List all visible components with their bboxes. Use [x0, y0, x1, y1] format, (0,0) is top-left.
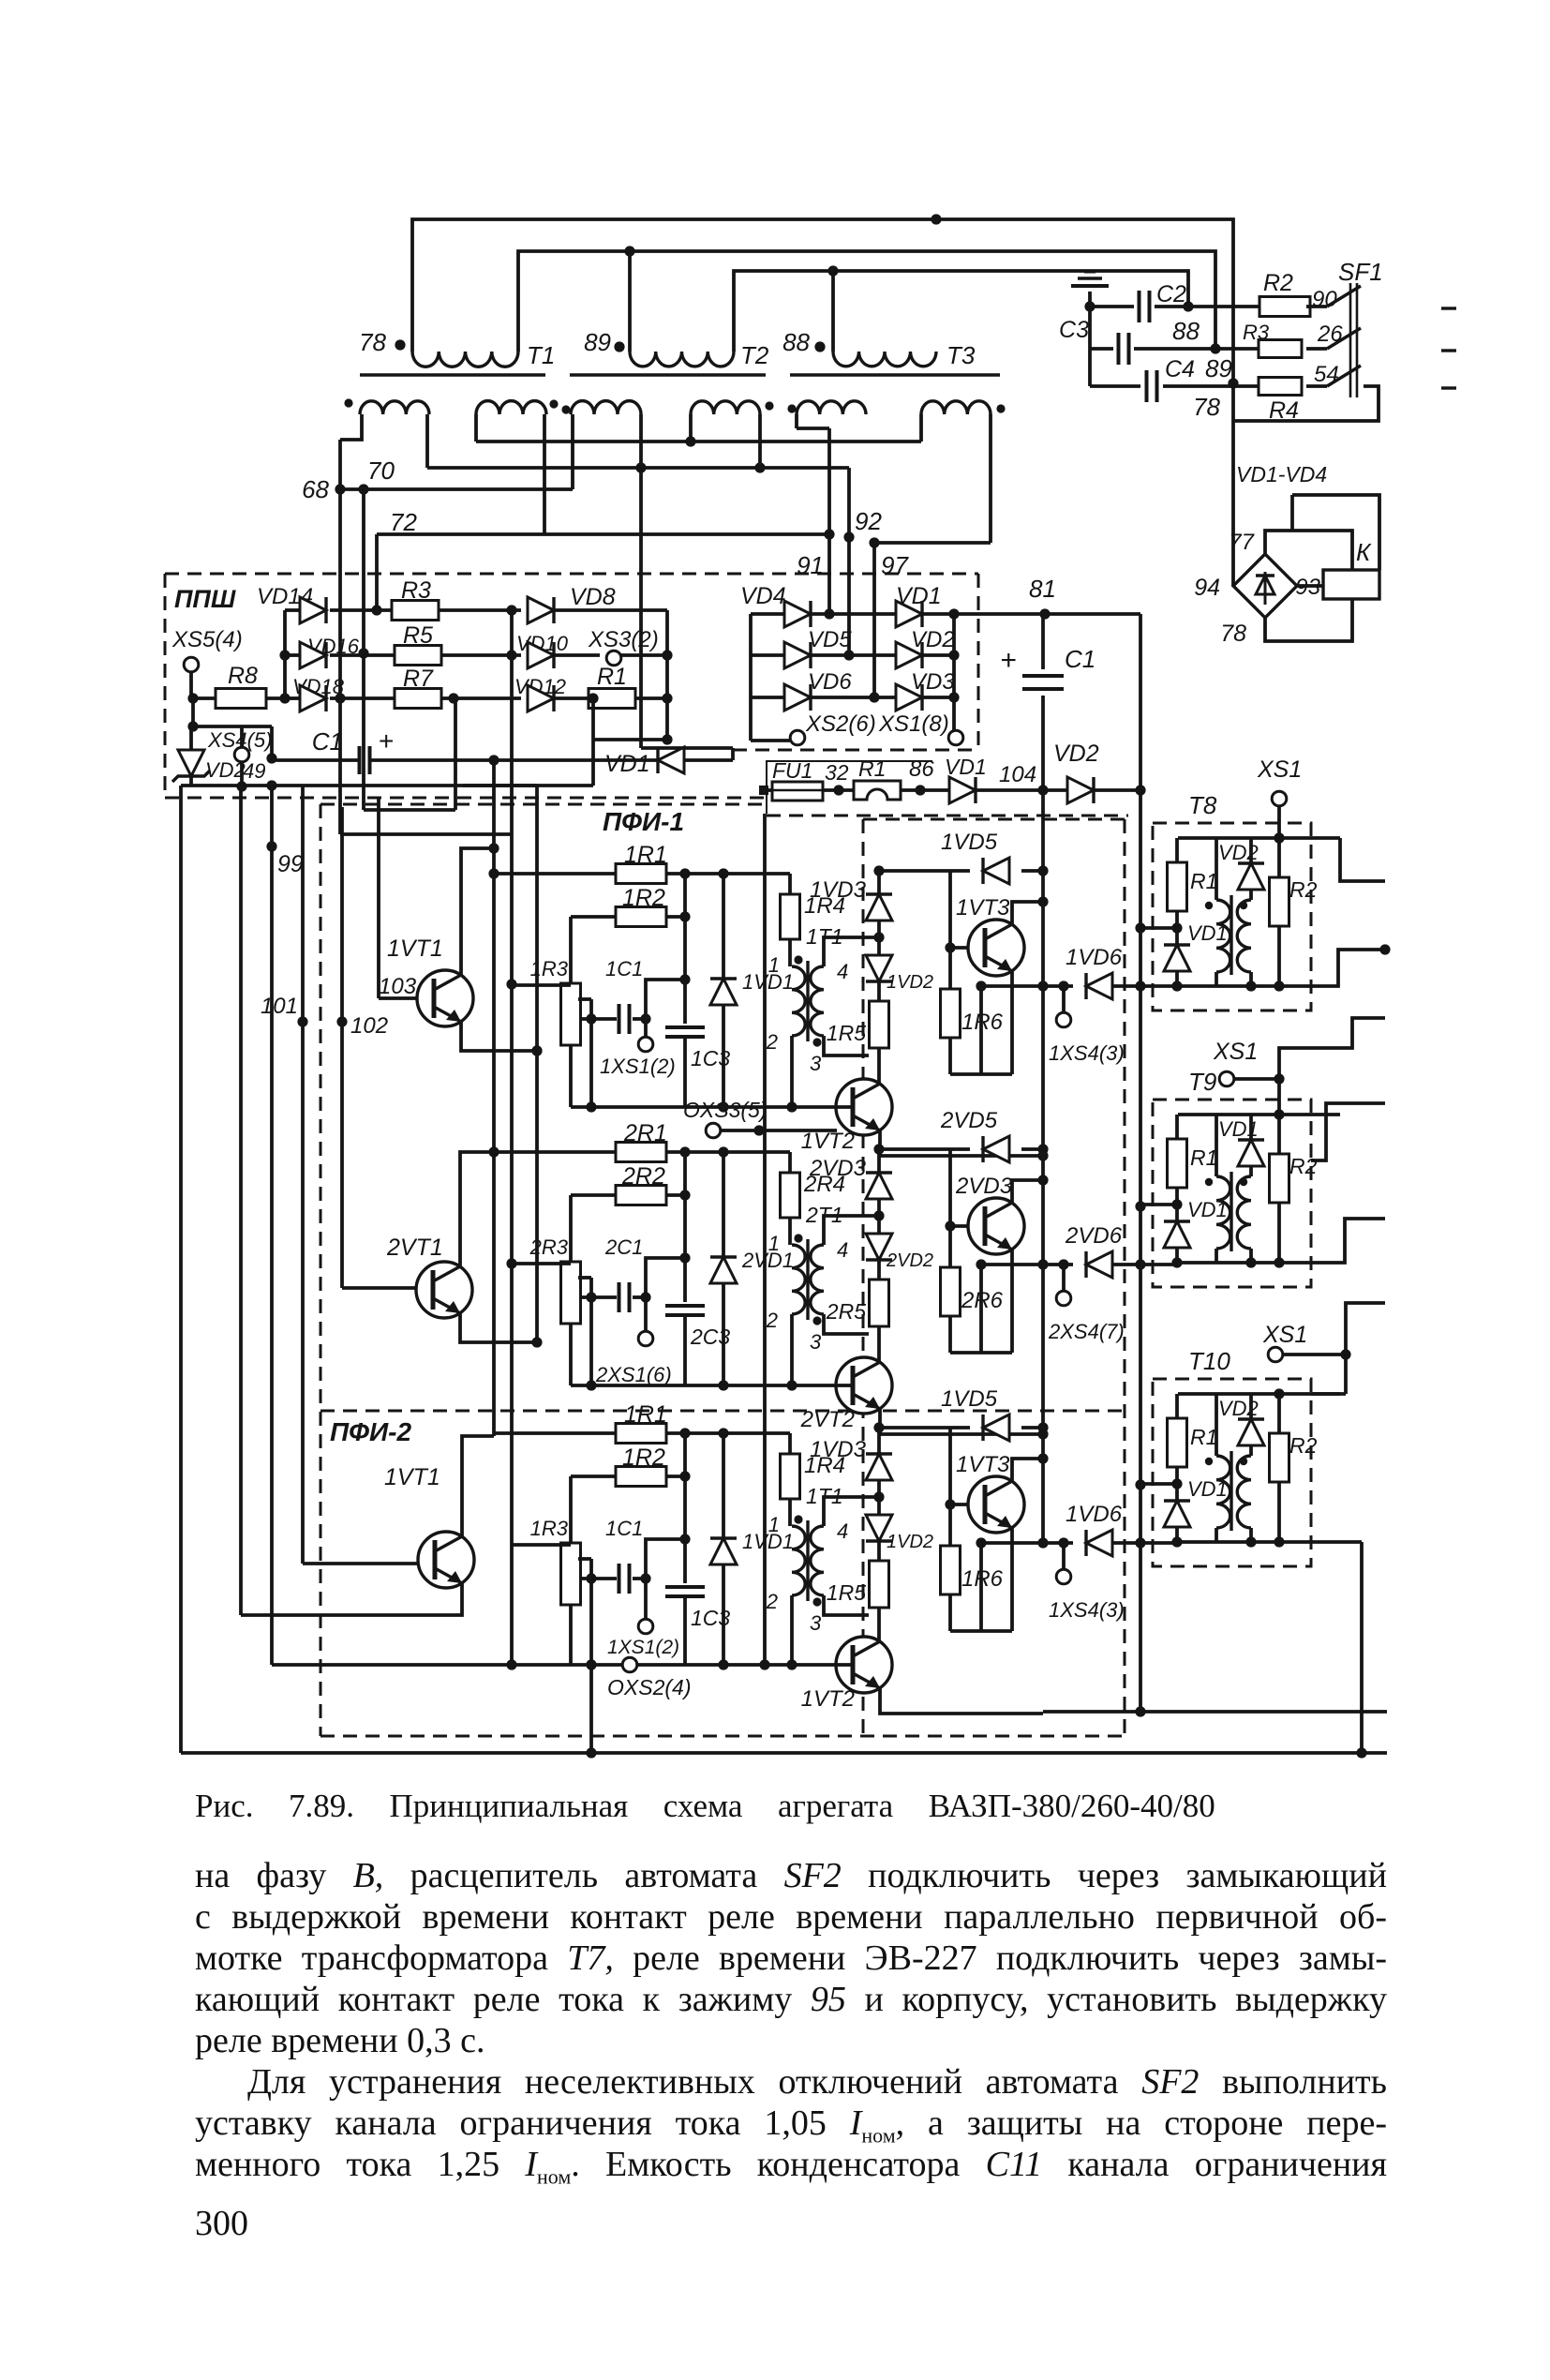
svg-text:VD8: VD8 — [570, 584, 616, 610]
svg-text:1VT3: 1VT3 — [956, 1452, 1010, 1477]
svg-text:R3: R3 — [1243, 321, 1270, 344]
resistor 2R1 — [494, 1150, 618, 1154]
svg-text:1: 1 — [768, 953, 780, 977]
svg-text:XS2(6): XS2(6) — [805, 711, 876, 737]
node 91 wire — [827, 534, 831, 614]
resistor 2R3 — [569, 1195, 573, 1262]
resistor R2 Т10 — [1274, 1388, 1284, 1399]
transformer T1 primary winding — [412, 352, 518, 367]
junction bus2/C3 row — [1210, 343, 1220, 353]
vertical to 2VT2 collector — [877, 1334, 881, 1361]
wire top bus 3 — [734, 271, 1188, 352]
2VT1 collector wire — [460, 1152, 494, 1268]
wire C1 to junction — [646, 1539, 685, 1579]
svg-text:4: 4 — [837, 1238, 848, 1262]
resistor R3 — [1259, 340, 1302, 358]
T2 secondary winding b — [691, 401, 760, 414]
vertical x731 — [683, 874, 687, 1024]
wire C1 row to right bus — [684, 758, 733, 762]
dashed output column left edge — [862, 819, 865, 1736]
vertical bus x816 — [763, 814, 767, 1665]
junction 68->R7 row — [335, 693, 345, 703]
diode 1VD3 — [877, 1430, 881, 1454]
wire row1 to right vertical — [1045, 612, 1140, 616]
dashed bridge bottom — [733, 749, 978, 752]
svg-text:2VD3: 2VD3 — [809, 1156, 867, 1181]
wire bridge to relay — [1297, 584, 1323, 588]
svg-text:94: 94 — [1194, 575, 1220, 601]
left vertical bus V2 (99) — [270, 786, 274, 1665]
core Т9 — [1230, 1172, 1232, 1251]
svg-text:Т9: Т9 — [1188, 1068, 1216, 1096]
capacitor 2C3 — [665, 1304, 705, 1308]
svg-text:2VD3: 2VD3 — [955, 1174, 1013, 1199]
bottom long wire — [181, 1751, 1387, 1755]
T1 secondary winding b — [476, 401, 546, 414]
svg-text:4: 4 — [837, 960, 848, 983]
resistor R1 Т9 — [1175, 1115, 1179, 1139]
terminal OXS3(5) — [706, 1123, 721, 1138]
vertical T2a right long — [639, 414, 643, 468]
resistor 1R4 — [788, 874, 792, 894]
wire VD6 left leg — [979, 1265, 983, 1353]
transformer 1T1 core — [806, 1520, 809, 1601]
resistor 1R1 — [494, 1431, 618, 1435]
svg-text:1VD5: 1VD5 — [941, 830, 998, 855]
svg-text:88: 88 — [1172, 317, 1200, 345]
shunt resistor R1 — [854, 781, 901, 800]
resistor 2R5 — [870, 1280, 889, 1326]
wire bus1 down to rectifier node 94 — [1231, 383, 1235, 586]
svg-text:R1: R1 — [1190, 1145, 1217, 1170]
dashed PFI divider — [320, 1410, 1125, 1413]
junction bus3/C2 row — [1183, 301, 1193, 311]
svg-text:VD1: VD1 — [604, 751, 650, 777]
zener VD2 PPSh — [189, 726, 193, 751]
terminal 2XS4(7) — [1058, 1259, 1068, 1269]
dashed PFI bottom edge — [320, 1735, 1125, 1738]
bus dots — [1037, 865, 1048, 876]
dashed PFI top edge — [320, 803, 767, 806]
dashed box PPSh outline — [165, 573, 978, 576]
bridge left bus — [749, 614, 753, 741]
svg-text:VD1: VD1 — [896, 583, 942, 609]
1VT1' base wire — [303, 1562, 418, 1565]
collector wire to bus — [1012, 902, 1043, 924]
primary winding Т8 — [1215, 838, 1218, 900]
svg-text:90: 90 — [1312, 287, 1337, 312]
core Т8 — [1230, 895, 1232, 975]
svg-text:2R2: 2R2 — [621, 1163, 665, 1190]
vertical bus x1217 — [1139, 614, 1142, 1712]
emitter wire 2VT2 — [880, 1409, 1043, 1434]
wire 72 W4 — [377, 532, 829, 536]
T10 bottom to right edge — [1311, 1540, 1362, 1544]
resistor R3 — [392, 601, 439, 621]
diode VD1 Т8 — [1175, 928, 1179, 945]
bridge right bus — [952, 614, 956, 736]
junction W2 T2b right — [758, 414, 762, 468]
svg-text:1VT1: 1VT1 — [384, 1464, 440, 1490]
wire base node 1 — [948, 871, 952, 989]
wire to relay top — [1265, 531, 1352, 570]
right edge stub T8 bottom — [1311, 950, 1385, 986]
diode VD1 Т9 — [1175, 1205, 1179, 1221]
svg-text:1XS1(2): 1XS1(2) — [600, 1055, 676, 1078]
1VT1' collector wire — [462, 1436, 494, 1538]
emitter wire 1VT2 — [880, 1130, 1043, 1156]
resistor 1R6 — [941, 1546, 961, 1594]
dashed output column right edge — [1124, 819, 1126, 1736]
svg-text:VD1: VD1 — [945, 755, 987, 779]
vertical x731 — [683, 1433, 687, 1583]
node 104 — [976, 788, 1067, 792]
node 92 wire — [847, 468, 851, 655]
svg-text:2R1: 2R1 — [623, 1120, 667, 1146]
svg-text:XS1: XS1 — [1257, 756, 1302, 783]
junction bus1/R4 row — [1228, 378, 1238, 388]
resistor 2R6 — [941, 1267, 961, 1316]
svg-text:VD4: VD4 — [740, 583, 786, 609]
svg-text:49: 49 — [243, 759, 265, 783]
junction on bus3 at T3 — [827, 265, 838, 276]
bottom wire row 2 — [571, 1384, 792, 1387]
svg-text:+: + — [379, 726, 394, 756]
svg-text:1VD6: 1VD6 — [1066, 1502, 1123, 1527]
wire x631 down to bottom — [589, 1665, 593, 1753]
core Т10 — [1230, 1451, 1232, 1531]
svg-text:VD2: VD2 — [1218, 1397, 1259, 1420]
diode 1VD5 — [879, 869, 970, 873]
emitter wire — [1010, 1528, 1014, 1631]
left entry Т8 — [1140, 926, 1177, 930]
feed vertical x527 — [492, 760, 496, 1436]
svg-text:32: 32 — [825, 760, 849, 785]
left vertical bus V0 — [179, 786, 183, 1753]
svg-text:Т2: Т2 — [740, 341, 769, 369]
resistor R1 PPSh — [589, 689, 635, 709]
resistor 1R4 — [788, 1433, 792, 1454]
svg-text:1VD6: 1VD6 — [1066, 945, 1123, 970]
terminal XS2(6) — [751, 739, 791, 742]
vertical 68 wire through box — [338, 440, 342, 834]
svg-text:4: 4 — [837, 1519, 848, 1543]
transformer 1T1 winding 1-2 — [788, 939, 792, 966]
node 70 — [358, 484, 368, 494]
diode 1VD3 — [877, 871, 881, 894]
diode 2VD5 — [879, 1147, 970, 1151]
right edge stub T9 top — [1311, 1103, 1385, 1160]
svg-text:ПФИ-2: ПФИ-2 — [330, 1417, 411, 1446]
vertical to 1VT2 collector — [877, 1615, 881, 1640]
resistor 1R1 — [494, 872, 618, 876]
svg-text:2: 2 — [766, 1590, 778, 1613]
emitter wire — [1010, 971, 1014, 1074]
transistor 1VT3 — [968, 920, 1024, 976]
dashed box PFI-1/PFI-2 left edge — [320, 804, 322, 1736]
svg-text:2: 2 — [766, 1309, 778, 1332]
svg-text:104: 104 — [999, 762, 1036, 787]
terminal 2XS1(6) row2 — [644, 1297, 648, 1332]
svg-text:2XS1(6): 2XS1(6) — [595, 1363, 672, 1386]
svg-text:2VD5: 2VD5 — [940, 1108, 998, 1133]
resistor 1R3 — [569, 1476, 573, 1543]
resistor R1 Т8 — [1175, 838, 1179, 862]
left vertical bus V1 — [239, 786, 243, 1615]
wire top bus 2 — [518, 251, 1215, 352]
svg-text:2: 2 — [766, 1030, 778, 1054]
capacitor C2 — [1090, 305, 1134, 308]
svg-text:ОXS3(5): ОXS3(5) — [683, 1098, 767, 1122]
svg-text:1VD3: 1VD3 — [810, 1437, 867, 1462]
dashed box Т10 — [1153, 1379, 1311, 1566]
svg-text:1R3: 1R3 — [530, 957, 569, 980]
secondary winding Т9 — [1237, 1176, 1251, 1249]
wires R3/R5/R7 to VD8 bus — [439, 608, 521, 612]
svg-text:1: 1 — [768, 1513, 780, 1536]
wire 1R1 row — [666, 1431, 790, 1435]
bottom wire Т8 — [1177, 984, 1311, 988]
terminal XS1(8) — [948, 730, 963, 745]
secondary winding Т10 — [1237, 1456, 1251, 1528]
capacitor 1C3 — [665, 1025, 705, 1029]
wire base node 2 — [948, 1149, 952, 1267]
svg-text:101: 101 — [261, 994, 298, 1019]
resistor R4 — [1259, 378, 1302, 396]
diode VD1 output — [949, 777, 976, 803]
diode 2VD3 — [877, 1149, 881, 1173]
svg-text:1VT3: 1VT3 — [956, 895, 1010, 921]
svg-text:103: 103 — [379, 974, 417, 999]
diode 2VD2 series — [877, 1216, 881, 1234]
svg-text:2VT1: 2VT1 — [386, 1235, 443, 1261]
capacitor C1 PPSh — [193, 725, 272, 728]
terminal 1XS4(3) — [1058, 980, 1068, 991]
node 86 — [901, 788, 949, 792]
dashed box Т9 — [1153, 1100, 1311, 1287]
wire VD6 left leg — [979, 1543, 983, 1631]
2VT1 base wire — [342, 1286, 416, 1290]
junction W2 T2a — [635, 462, 646, 472]
transformer 1T1 winding 4-3 — [811, 1526, 824, 1595]
capacitor 1C1 — [586, 1013, 596, 1024]
svg-text:Т8: Т8 — [1188, 791, 1217, 819]
svg-text:77: 77 — [1229, 530, 1255, 555]
svg-text:1R5: 1R5 — [827, 1021, 866, 1045]
resistor R7 — [395, 689, 441, 709]
feed vertical x546 — [510, 697, 514, 1665]
bridge row VD5 VD2 — [751, 653, 784, 657]
dashed output column top edge — [863, 818, 1128, 821]
svg-text:3: 3 — [810, 1611, 822, 1635]
svg-text:89: 89 — [1205, 354, 1232, 382]
T1 core — [360, 373, 545, 376]
svg-text:1VD5: 1VD5 — [941, 1386, 998, 1412]
transformer 1T1 winding 4-3 — [811, 966, 824, 1036]
emitter wire — [1010, 1250, 1014, 1353]
svg-text:VD5: VD5 — [808, 627, 852, 652]
vertical to 1VT2 collector — [877, 1055, 881, 1083]
T3 secondary winding b — [921, 401, 991, 414]
svg-text:XS5(4): XS5(4) — [171, 627, 243, 652]
svg-text:54: 54 — [1314, 362, 1339, 387]
svg-text:1XS1(2): 1XS1(2) — [607, 1637, 679, 1658]
svg-text:VD6: VD6 — [808, 669, 852, 695]
vertical T1b right to W4 — [543, 414, 546, 534]
svg-text:1VT2: 1VT2 — [801, 1129, 855, 1154]
top wire Т8 — [1178, 836, 1340, 840]
inner diode of diamond — [1256, 576, 1274, 594]
svg-text:1VT1: 1VT1 — [387, 936, 443, 962]
svg-text:1R3: 1R3 — [530, 1517, 569, 1540]
primary winding Т10 — [1215, 1394, 1218, 1456]
svg-text:ППШ: ППШ — [174, 585, 236, 613]
svg-text:89: 89 — [584, 328, 611, 356]
bottom wire Т9 — [1177, 1261, 1311, 1265]
svg-text:86: 86 — [909, 756, 934, 782]
diode VD2 output — [1067, 777, 1094, 803]
1VT1 collector wire — [461, 848, 494, 977]
junction V2 start — [266, 780, 276, 790]
junction R7 right — [448, 693, 458, 703]
svg-text:1VD2: 1VD2 — [887, 1532, 933, 1552]
svg-text:R3: R3 — [401, 577, 431, 604]
capacitor 1C3 — [665, 1585, 705, 1589]
svg-text:1XS4(3): 1XS4(3) — [1049, 1598, 1125, 1622]
bottom wire Т10 — [1177, 1540, 1311, 1544]
right edge vertical from T10 bottom — [1360, 1542, 1364, 1753]
resistor 1R2 — [571, 915, 618, 919]
junction on bus1 at T3 — [931, 214, 941, 224]
svg-text:2VD2: 2VD2 — [886, 1250, 933, 1271]
svg-text:С3: С3 — [1059, 317, 1089, 343]
svg-text:1C1: 1C1 — [605, 957, 643, 980]
bottom wire row 1 — [571, 1663, 792, 1667]
svg-text:2C3: 2C3 — [690, 1325, 730, 1349]
1VT1' emitter wire — [241, 1581, 462, 1615]
wire VD6 left leg — [979, 986, 983, 1074]
diode 1VD2 series — [877, 937, 881, 955]
ground symbol — [1088, 292, 1092, 307]
vertical x631 — [589, 1559, 593, 1665]
diode VD1 Т10 — [1175, 1484, 1179, 1501]
capacitor C4 — [1088, 349, 1092, 386]
svg-text:1C3: 1C3 — [691, 1606, 730, 1630]
svg-text:R1: R1 — [1190, 1425, 1217, 1449]
svg-text:С4: С4 — [1165, 356, 1195, 382]
terminal OXS2(4) row3 — [622, 1657, 637, 1672]
svg-text:XS3(2): XS3(2) — [588, 627, 659, 652]
svg-text:+: + — [1000, 645, 1017, 676]
svg-text:1VT2: 1VT2 — [801, 1686, 855, 1712]
svg-text:1R1: 1R1 — [624, 1401, 667, 1428]
svg-text:88: 88 — [782, 328, 810, 356]
diode stack left bus — [283, 610, 287, 698]
top wire Т10 — [1178, 1392, 1340, 1396]
svg-text:VD2: VD2 — [1218, 841, 1259, 864]
resistor R1 Т10 — [1175, 1394, 1179, 1418]
left vertical V5 (102) — [340, 807, 344, 1288]
svg-text:XS1(8): XS1(8) — [878, 711, 949, 737]
resistor 1R6 — [941, 989, 961, 1038]
resistor R8 — [187, 693, 198, 703]
feed vertical from node 70 — [362, 653, 365, 810]
dashed box bridge right edge — [977, 574, 980, 750]
T2 secondary winding a — [571, 401, 641, 414]
node 81 — [1039, 608, 1050, 619]
diode 2VD6 — [981, 1263, 1073, 1266]
svg-text:R7: R7 — [403, 666, 434, 692]
emitter bottom wire — [950, 1629, 1012, 1633]
svg-text:26: 26 — [1317, 322, 1343, 347]
vertical 70 wire — [362, 489, 365, 653]
svg-text:1R1: 1R1 — [624, 842, 667, 868]
riser W4 to T3a — [827, 428, 831, 534]
secondary interconnect wire W1 — [476, 440, 921, 443]
transformer T3 primary winding — [831, 271, 835, 352]
vertical x731 — [683, 1152, 687, 1302]
svg-text:78: 78 — [1193, 393, 1220, 421]
wire SF1 bottom contact to node 78 — [1233, 386, 1379, 421]
wire base node 1 — [948, 1428, 952, 1546]
svg-text:1: 1 — [768, 1232, 780, 1255]
bridge row VD4 VD1 — [751, 612, 784, 616]
svg-text:78: 78 — [359, 328, 386, 356]
svg-text:VD1-VD4: VD1-VD4 — [1236, 462, 1327, 486]
svg-text:С1: С1 — [312, 727, 343, 756]
relay K coil — [1323, 570, 1379, 599]
T2 core — [570, 373, 766, 376]
resistor 2R4 — [788, 1152, 792, 1173]
right edge stub T10 XS1 — [1346, 1303, 1385, 1355]
svg-text:R2: R2 — [1289, 877, 1318, 902]
secondary winding Т8 — [1237, 900, 1251, 972]
left entry Т9 — [1140, 1203, 1177, 1206]
svg-text:1XS4(3): 1XS4(3) — [1049, 1041, 1125, 1065]
node 68 — [335, 484, 345, 494]
vertical x631 — [589, 999, 593, 1107]
svg-text:XS1: XS1 — [1213, 1039, 1258, 1065]
svg-text:SF1: SF1 — [1338, 258, 1383, 286]
relay bottom wire — [1265, 599, 1352, 641]
svg-text:2C1: 2C1 — [604, 1235, 643, 1259]
capacitor C1 main — [1041, 614, 1045, 669]
right edge stub T9 bottom — [1311, 1219, 1385, 1263]
svg-text:VD1: VD1 — [1218, 1117, 1259, 1141]
left entry Т10 — [1140, 1482, 1177, 1486]
resistor 1R2 — [571, 1474, 618, 1478]
primary winding Т9 — [1215, 1115, 1218, 1176]
feed staircase from 68 wire — [340, 832, 512, 836]
T10 top wire extension — [1311, 1392, 1346, 1396]
diode VD2 Т8 — [1249, 838, 1253, 863]
emitter wire 1VT2 — [880, 1688, 1043, 1714]
svg-text:1C1: 1C1 — [605, 1517, 643, 1540]
transformer T2 primary winding — [628, 251, 632, 352]
feed staircase from R7 row — [454, 698, 457, 810]
transistor 1VT2 — [836, 1637, 892, 1693]
wire XS5 leg down — [191, 698, 195, 726]
svg-text:72: 72 — [390, 508, 417, 536]
resistor 2R2 — [571, 1193, 618, 1197]
transistor 2VD3 — [968, 1198, 1024, 1254]
collector wire to bus — [1012, 1459, 1043, 1481]
terminal 1XS4(3) — [1058, 1537, 1068, 1548]
svg-text:С1: С1 — [1065, 645, 1095, 673]
transformer 2T1 winding 1-2 — [788, 1218, 792, 1245]
diode 1VD6 — [981, 984, 1073, 988]
svg-text:1R2: 1R2 — [622, 885, 665, 911]
